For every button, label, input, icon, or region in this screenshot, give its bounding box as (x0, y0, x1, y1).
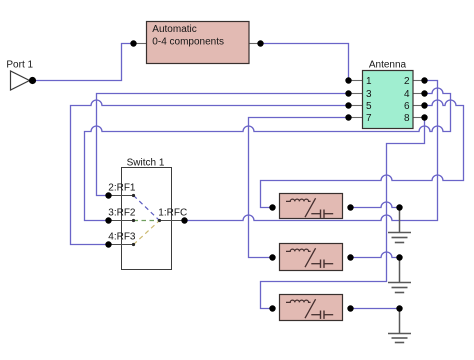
node: antenna pin 6 (421, 102, 427, 108)
svg-text:Switch 1: Switch 1 (127, 158, 165, 169)
wire: matching network 2 output to ground 2 (351, 252, 400, 257)
wire: Switch RF3 to Antenna pin 5 (71, 100, 349, 245)
wire: Antenna pin 7 to matching network 2 input (249, 118, 349, 258)
node: network 3 input (269, 305, 275, 311)
node: antenna pin 1 (345, 77, 351, 83)
svg-text:1: 1 (366, 76, 372, 87)
svg-text:4: 4 (404, 89, 410, 100)
svg-text:Port 1: Port 1 (6, 60, 33, 71)
node: ground 3 junction (396, 305, 402, 311)
node: network 3 output (347, 305, 353, 311)
node: antenna pin 2 (421, 77, 427, 83)
wire: Port 1 to Automatic box input (33, 44, 134, 81)
node: antenna pin 7 (345, 114, 351, 120)
node: Automatic input (130, 40, 136, 46)
port P1 (6, 60, 33, 90)
wire: Automatic box output to Antenna pin 1 (261, 44, 349, 81)
component: Switch 1 (108, 158, 187, 270)
wire: Switch RF2 to Antenna pin 4 (85, 88, 451, 221)
contact RF3 (132, 243, 135, 246)
contact RF2 (132, 219, 135, 222)
wire: Switch RFC to Antenna pin 2 (185, 81, 438, 221)
node: ground 1 junction (396, 204, 402, 210)
svg-text:3: 3 (366, 89, 372, 100)
svg-text:Automatic: Automatic (152, 24, 196, 35)
node: network 2 output (347, 254, 353, 260)
svg-text:Antenna: Antenna (369, 59, 407, 70)
svg-text:8: 8 (404, 113, 410, 124)
svg-text:7: 7 (366, 113, 372, 124)
node: network 1 output (347, 204, 353, 210)
wire: matching network 3 output to ground 3 (351, 308, 400, 310)
node: antenna pin 5 (345, 102, 351, 108)
node: antenna pin 8 (421, 114, 427, 120)
svg-text:6: 6 (404, 101, 410, 112)
svg-text:4:RF3: 4:RF3 (108, 232, 136, 243)
node: network 1 input (269, 204, 275, 210)
component: matching network 3 (L C) (280, 295, 343, 321)
contact RF1 (132, 194, 135, 197)
svg-text:2:RF1: 2:RF1 (108, 183, 136, 194)
node: Automatic output (257, 40, 263, 46)
ground 3 (388, 309, 411, 343)
component: matching network 2 (L C) (280, 244, 343, 271)
wire: Antenna pin 8 to matching network 3 input (261, 118, 425, 309)
node: network 2 input (269, 254, 275, 260)
svg-text:0-4 components: 0-4 components (152, 36, 224, 47)
node: antenna pin 4 (421, 90, 427, 96)
ground 1 (388, 208, 411, 243)
node: switch RF2 (105, 217, 111, 223)
switch throw RF2 dashed (134, 220, 160, 222)
node: switch RF3 (105, 241, 111, 247)
node: switch RF1 (105, 192, 111, 198)
wire: matching network 1 output to ground 1 (351, 202, 400, 208)
contact RFC (158, 219, 161, 222)
component: Automatic 0-4 components block (134, 22, 261, 64)
wire: Switch RF1 to Antenna pin 3 (97, 94, 349, 196)
svg-text:2: 2 (404, 76, 410, 87)
component: Antenna block (349, 59, 425, 128)
switch throw RF3 dashed (134, 221, 160, 245)
wire: Antenna pin 6 to matching network 1 input (261, 100, 464, 208)
component: matching network 1 (L C) (280, 194, 343, 219)
svg-text:1:RFC: 1:RFC (158, 208, 187, 219)
node: port output (29, 77, 36, 84)
node: antenna pin 3 (345, 90, 351, 96)
switch throw RF1 dashed (134, 196, 160, 221)
svg-text:3:RF2: 3:RF2 (108, 208, 136, 219)
svg-text:5: 5 (366, 101, 372, 112)
ground 2 (388, 258, 411, 293)
node: switch RFC (181, 217, 187, 223)
node: ground 2 junction (396, 254, 402, 260)
